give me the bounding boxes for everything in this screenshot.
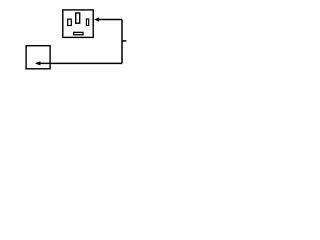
tick stub on vertical wire bbox=[122, 40, 126, 42]
arrowhead inside bottom box U2 bbox=[35, 61, 41, 65]
wire bottom horizontal into lower box bbox=[40, 62, 122, 64]
socket middle pin bbox=[76, 13, 80, 23]
top box U1 (socket outline) bbox=[63, 10, 93, 38]
bottom box U2 bbox=[26, 46, 50, 69]
socket right pin bbox=[86, 19, 88, 26]
arrowhead into top box U1 bbox=[94, 17, 99, 21]
background bbox=[0, 0, 150, 82]
wire top horizontal from arrow to corner bbox=[99, 19, 123, 21]
wire right vertical bbox=[121, 20, 123, 64]
socket bottom slot bbox=[74, 32, 83, 34]
socket left pin bbox=[68, 19, 72, 25]
